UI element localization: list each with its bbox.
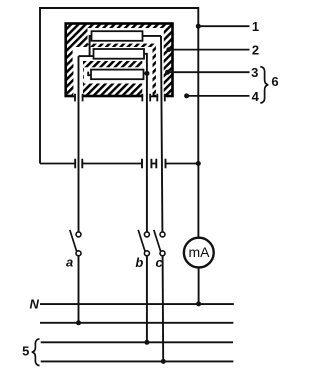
phase line L3 [41,341,233,343]
svg-text:1: 1 [252,19,259,34]
node switch a on line L2 [76,320,81,325]
wire from bar1 left end down to bar2 left junction [90,36,94,56]
white channel for lead b inside block [142,50,152,95]
callout line 1 with node on enclosure [196,24,201,29]
svg-text:4: 4 [252,89,260,104]
wire below milliammeter to neutral line [198,268,200,304]
svg-text:3: 3 [251,65,258,80]
milliammeter mA [184,238,214,268]
wire from enclosure right edge down to milliammeter [197,164,199,238]
node milliammeter on neutral line [196,301,201,306]
svg-text:N: N [30,297,40,312]
wire from bar2 right end down to junction with bar3 [142,54,147,74]
lead wire a from junction down to switch a [78,56,80,232]
terminal ticks on enclosure bottom edge (connector pair for lead a) [75,159,82,168]
phase line L2 [40,322,233,324]
wire from bar1 right end across to lead c [140,35,161,37]
lead wire b down to switch b [146,73,148,231]
callout line 4 with node in air gap [184,93,189,98]
svg-text:5: 5 [22,343,29,358]
heating element bar 1 [92,31,143,41]
heating element bar 3 [91,70,144,80]
callout line 2 attached to insulation block [166,47,171,52]
terminal ticks on enclosure bottom edge (connector pair for lead b) [142,159,151,168]
neutral line N [40,303,234,305]
white channel around element bar 1 and its right lead [88,28,164,44]
svg-text:b: b [135,255,143,270]
svg-text:6: 6 [271,74,278,89]
junction node bar2/bar3 leads [145,71,150,76]
wire stub from bar3 right end to junction [142,72,147,74]
brace grouping phase lines (item 5) [32,339,40,366]
wire below switch c to line L4 [162,256,165,361]
white gap in block bottom border for lead c [158,94,164,100]
white channel around element bar 3 [84,67,153,83]
lead wire c down to switch c [161,36,162,232]
wire stub from bar2 left end to lead a [79,55,95,57]
heating element bar 2 [94,49,145,59]
switch c [160,232,165,237]
terminal ticks on block bottom border (lead c) [157,94,165,102]
svg-text:2: 2 [252,43,259,58]
switch a [76,232,81,237]
white channel around element bar 2 and its left lead [73,47,153,61]
terminal ticks on block bottom border (lead a) [75,94,83,102]
brace grouping callouts 3 and 4 (item 6) [260,67,268,103]
heating element insulation block, hatched (item 2) [66,24,173,97]
white channel for lead c inside block [156,28,164,96]
enclosure bottom edge wire segments with terminal gaps [40,163,198,165]
svg-text:a: a [66,254,73,269]
terminal ticks on enclosure bottom edge (connector pair for lead c) [156,159,165,168]
callout line 3 attached to lead c [165,70,170,75]
node switch c on line L4 [161,359,166,364]
white gap in block bottom border for lead a [76,94,82,100]
phase line L4 [41,360,234,362]
small stub at bar3 left end [88,72,91,76]
terminal ticks on block bottom border (lead b) [142,94,150,102]
node enclosure bottom-right [196,161,201,166]
svg-text:mA: mA [189,244,211,260]
wire below switch a to line L2 [78,256,80,323]
switch b [144,232,149,237]
node switch b on line L3 [144,340,149,345]
white gap in block bottom border for lead b [143,94,149,100]
white channel for lead a inside block [73,47,83,96]
wire below switch b to line L3 [146,256,148,342]
enclosure body rectangle (item 1), top/left/right edges [40,8,198,164]
